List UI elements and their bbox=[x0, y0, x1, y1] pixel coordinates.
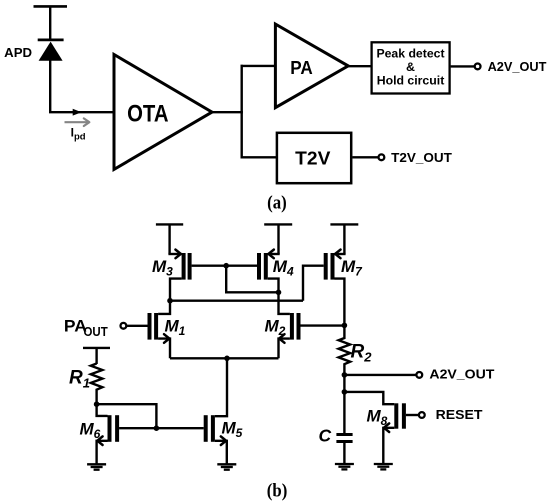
terminal A2V_OUT (a) bbox=[475, 59, 547, 74]
svg-text:T2V: T2V bbox=[295, 148, 331, 169]
wire T2V to terminal bbox=[353, 156, 379, 158]
current arrow Ipd bbox=[65, 118, 90, 126]
wire branch to PA bbox=[241, 65, 277, 67]
amplifier PA bbox=[275, 24, 348, 108]
node M3 drain / M1 drain bbox=[167, 298, 173, 304]
node C top / M8 drain bbox=[342, 389, 348, 395]
transistor M8 bbox=[383, 403, 406, 464]
svg-text:R2: R2 bbox=[351, 342, 373, 365]
svg-text:A2V_OUT: A2V_OUT bbox=[429, 366, 494, 381]
svg-text:Ipd: Ipd bbox=[71, 126, 86, 143]
svg-text:PA: PA bbox=[290, 57, 313, 78]
wire PA to peak detect block bbox=[348, 65, 372, 67]
wire gate bus M6 to M5 bbox=[119, 427, 204, 429]
svg-text:M1: M1 bbox=[165, 317, 186, 339]
wire node to M8 drain bbox=[344, 392, 394, 404]
svg-text:Peak detect: Peak detect bbox=[376, 47, 444, 61]
M7 source arrow bbox=[335, 250, 340, 259]
node M4 drain / M2 drain bbox=[276, 290, 282, 296]
transistor M4 bbox=[257, 253, 280, 292]
wire riser to M7 gate bbox=[303, 266, 324, 301]
wire tail to M5 drain bbox=[215, 358, 227, 416]
power rail above M3 bbox=[156, 224, 183, 254]
transistor M7 bbox=[324, 253, 346, 325]
wire OTA output to branch bbox=[212, 111, 243, 113]
M5 source arrow bbox=[221, 436, 226, 445]
svg-text:T2V_OUT: T2V_OUT bbox=[391, 150, 452, 165]
transistor M5 bbox=[204, 415, 227, 464]
svg-text:&: & bbox=[406, 60, 415, 74]
wire branch to T2V bbox=[241, 156, 277, 158]
wire output node down to C bbox=[343, 375, 345, 433]
M1 source arrow bbox=[164, 334, 169, 343]
transistor M2 bbox=[279, 292, 301, 358]
svg-text:OTA: OTA bbox=[127, 101, 168, 128]
svg-text:M7: M7 bbox=[341, 257, 363, 279]
svg-text:Hold circuit: Hold circuit bbox=[377, 73, 445, 87]
M6 source arrow bbox=[97, 436, 102, 445]
wire bus M3 drain to M7 gate riser bbox=[170, 300, 303, 302]
wire block to A2V_OUT terminal bbox=[451, 65, 475, 67]
node R2 bottom / A2V_OUT bbox=[342, 372, 348, 378]
svg-text:M8: M8 bbox=[367, 407, 388, 429]
svg-text:M5: M5 bbox=[222, 419, 243, 441]
svg-text:M2: M2 bbox=[265, 317, 286, 339]
transistor M1 bbox=[148, 301, 171, 359]
svg-text:RESET: RESET bbox=[436, 407, 483, 422]
transistor M3 bbox=[168, 253, 191, 301]
svg-text:M6: M6 bbox=[80, 420, 101, 442]
terminal PA_OUT bbox=[121, 323, 148, 329]
M3 source arrow bbox=[176, 250, 181, 259]
wire R1 node down to M6 drain bbox=[97, 404, 108, 416]
op-amp OTA bbox=[114, 55, 212, 170]
svg-text:(b): (b) bbox=[267, 481, 288, 502]
wire M8 gate to RESET terminal bbox=[406, 414, 419, 416]
resistor R2 bbox=[339, 325, 351, 375]
power rail above M7 bbox=[330, 224, 358, 254]
wire to A2V_OUT terminal bbox=[344, 374, 416, 376]
ground under M8 bbox=[374, 464, 393, 469]
svg-text:C: C bbox=[319, 426, 332, 446]
wire APD to OTA input bbox=[50, 60, 114, 116]
node M7 drain / M2 gate / R2 top bbox=[342, 323, 348, 329]
terminal A2V_OUT (b) bbox=[416, 366, 494, 381]
terminal T2V_OUT bbox=[379, 150, 452, 165]
terminal RESET bbox=[419, 407, 483, 422]
svg-text:APD: APD bbox=[4, 45, 32, 60]
M2 source arrow bbox=[279, 334, 284, 343]
node gate junction bbox=[223, 263, 229, 269]
node gate bus bbox=[154, 425, 160, 431]
M8 source arrow bbox=[384, 423, 389, 432]
wire M3 gate to M4 gate bbox=[192, 265, 257, 267]
power rail above M4 bbox=[264, 224, 292, 254]
ground under M5 bbox=[217, 464, 236, 469]
transistor M6 bbox=[97, 415, 120, 464]
wire gate junction down to M4 drain node bbox=[226, 266, 278, 293]
node R1 bottom / M6 drain bbox=[94, 401, 100, 407]
wire M2 gate to output node bbox=[301, 324, 345, 326]
power rail (APD supply) bbox=[34, 6, 68, 38]
photodiode APD bbox=[38, 40, 64, 61]
svg-text:A2V_OUT: A2V_OUT bbox=[488, 59, 547, 74]
branch vertical wire bbox=[240, 65, 242, 159]
M4 source arrow bbox=[269, 250, 274, 259]
ground under M6 bbox=[87, 464, 106, 469]
resistor R1 bbox=[91, 364, 103, 405]
node tail bbox=[224, 356, 230, 362]
svg-text:M4: M4 bbox=[273, 257, 294, 279]
wire tail bus bbox=[170, 357, 279, 359]
block Peak detect and Hold circuit bbox=[372, 42, 450, 93]
ground under C bbox=[335, 464, 354, 469]
svg-text:(a): (a) bbox=[267, 193, 287, 214]
svg-text:R1: R1 bbox=[69, 368, 90, 391]
block T2V bbox=[277, 133, 351, 183]
svg-text:M3: M3 bbox=[152, 257, 173, 279]
power rail above R1 bbox=[83, 348, 110, 364]
wire R1 node to gate bus bbox=[97, 404, 157, 428]
capacitor C bbox=[336, 435, 352, 465]
svg-text:OUT: OUT bbox=[84, 325, 109, 339]
